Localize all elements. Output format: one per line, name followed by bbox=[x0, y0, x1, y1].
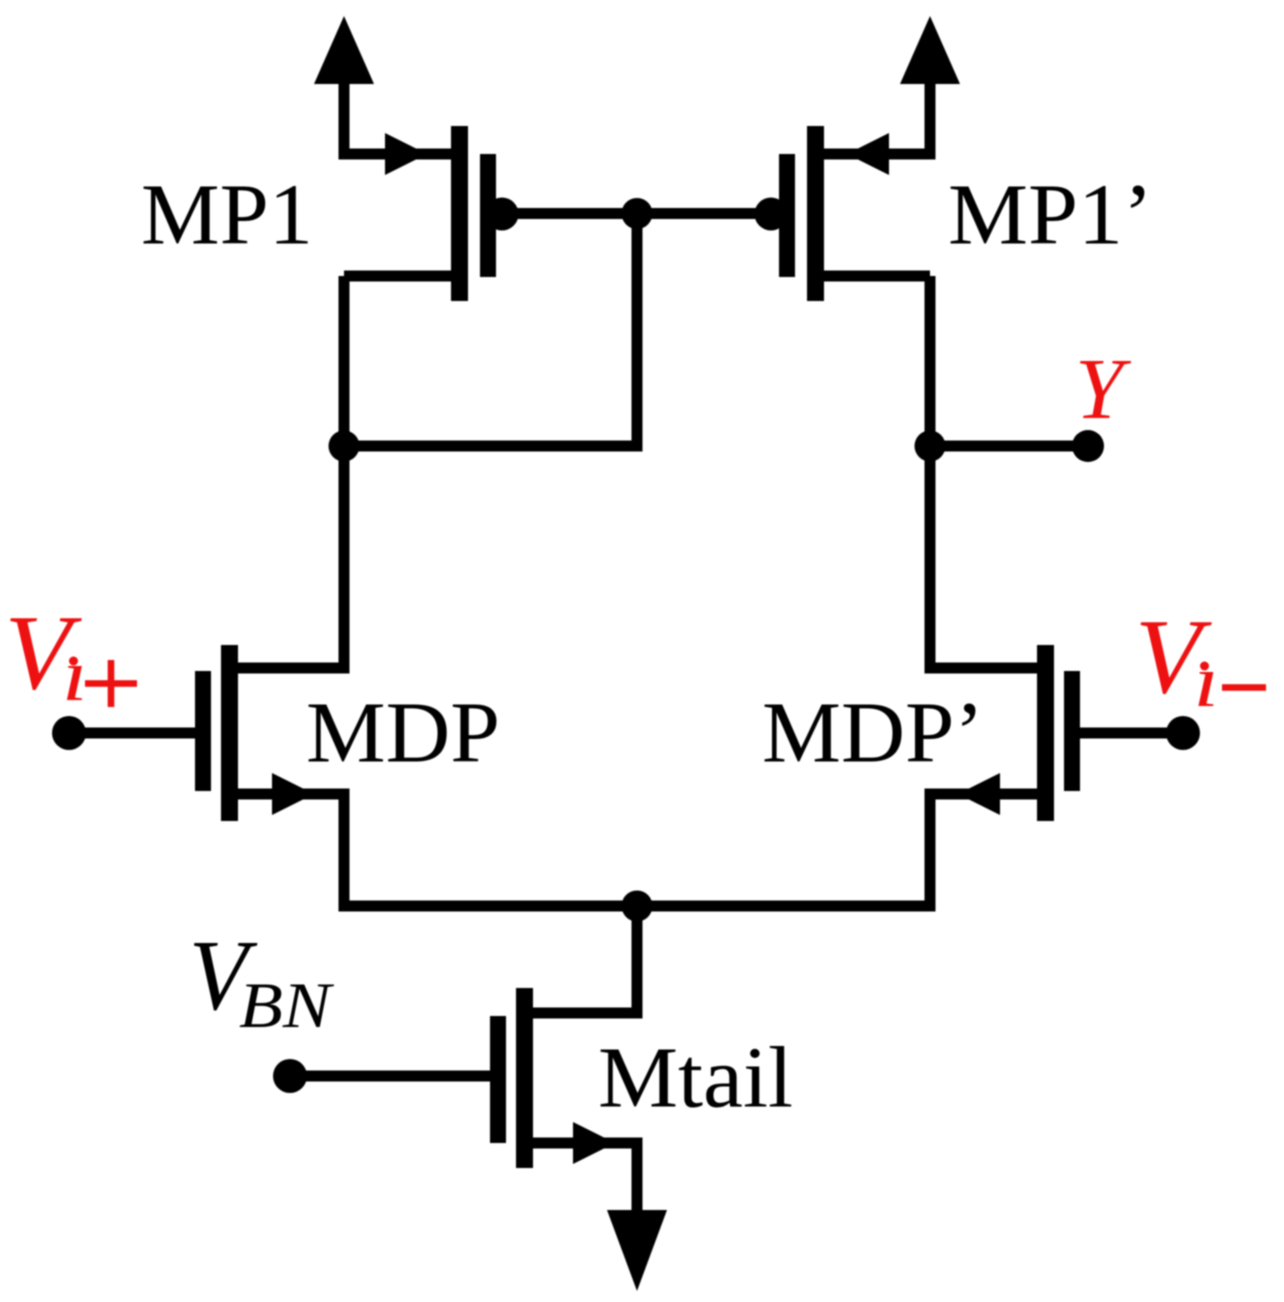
wire tail node down to Mtail drain bbox=[632, 906, 643, 1019]
svg-text:MP1’: MP1’ bbox=[948, 166, 1153, 263]
node gate bus junction bbox=[622, 198, 653, 229]
terminal Vi- bbox=[1166, 716, 1200, 750]
label Vi+ bbox=[5, 595, 138, 717]
transistor MP1 bbox=[344, 126, 519, 301]
node right drain junction bbox=[915, 431, 946, 462]
wire Mtail source down to ground bbox=[632, 1143, 643, 1212]
svg-text:ı: ı bbox=[1194, 641, 1220, 723]
wire MDP source down to tail bbox=[339, 794, 350, 912]
terminal VBN bbox=[273, 1059, 307, 1093]
node tail junction bbox=[622, 891, 653, 922]
svg-text:ı: ı bbox=[62, 635, 88, 717]
svg-text:BN: BN bbox=[239, 969, 334, 1041]
transistor Mtail bbox=[290, 988, 643, 1168]
wire left branch drain of MP1 down to MDP bbox=[339, 276, 350, 674]
terminal Vi+ bbox=[52, 716, 86, 750]
label Vi- bbox=[1135, 598, 1266, 722]
wire to output Y bbox=[930, 441, 1088, 452]
power supply arrow VDD left bbox=[314, 16, 374, 160]
transistor MDP' bbox=[925, 645, 1184, 821]
power supply arrow VDD right bbox=[900, 16, 960, 160]
wire gate bus MP1 to MP1' bbox=[501, 208, 774, 219]
svg-text:MP1: MP1 bbox=[141, 166, 313, 263]
wire MDP' source down to tail bbox=[925, 794, 936, 912]
svg-text:MDP’: MDP’ bbox=[762, 684, 984, 781]
svg-text:MDP: MDP bbox=[306, 684, 500, 781]
node left drain junction bbox=[329, 431, 360, 462]
terminal Y bbox=[1072, 430, 1104, 462]
wire right branch drain of MP1' down to MDP' bbox=[925, 276, 936, 674]
svg-text:Mtail: Mtail bbox=[598, 1029, 793, 1126]
wire tail bus bbox=[339, 901, 936, 912]
label VBN bbox=[189, 920, 334, 1041]
wire cross connection gate-drain bbox=[339, 214, 643, 452]
transistor MP1' bbox=[755, 126, 931, 301]
ground arrow bbox=[607, 1210, 667, 1291]
transistor MDP bbox=[69, 645, 350, 821]
